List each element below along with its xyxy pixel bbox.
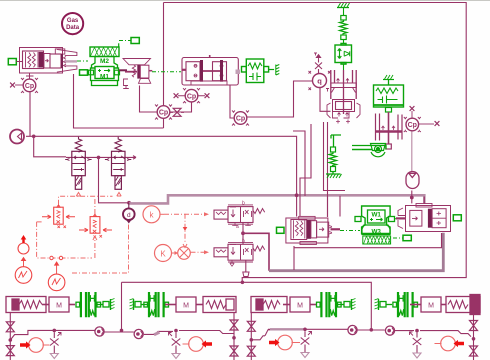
salmon arrow up into valve A <box>76 193 80 197</box>
motor box M R1 <box>290 297 316 312</box>
valve V3 vertical cylinder <box>327 70 360 124</box>
summing dots on bottom dash line <box>50 256 53 259</box>
green dash W1 to MR <box>395 218 404 220</box>
wire: left vertical from top border to Cp C2 <box>163 3 165 107</box>
wire: C4 to accumulator <box>411 132 413 172</box>
wire V3 left drain to ML <box>300 124 311 217</box>
wire: drain to thick line <box>293 131 305 196</box>
force box green with arrows <box>335 43 352 64</box>
wire green to force box <box>343 40 345 44</box>
wire: V1 bottom loop to C2 <box>74 74 164 128</box>
tank: station1 R <box>301 353 309 358</box>
green joint square 2 <box>341 35 346 40</box>
compensator Cp C4 <box>404 117 421 132</box>
wire: valve row line <box>66 156 136 160</box>
valve X right top L <box>230 320 238 330</box>
check valve L2 <box>134 329 143 338</box>
green wall + port R2 <box>375 299 393 311</box>
clutch green R1 <box>317 292 342 317</box>
node: dot left col R <box>250 338 254 342</box>
x right of C4 <box>435 121 440 126</box>
node: dot thick line x296 <box>295 193 299 197</box>
green wall + port L2 <box>130 299 148 311</box>
green port W3 right <box>403 235 411 241</box>
compensator Cp C2 <box>155 105 172 120</box>
svg-text:Gas: Gas <box>67 18 79 24</box>
wire: thick mechanical line <box>129 195 424 203</box>
servo valve V2 <box>123 59 152 89</box>
wire: dot right to descending loop <box>243 233 269 270</box>
valve B <box>105 137 131 190</box>
pump unit ML <box>286 216 340 244</box>
servo valve V1 <box>20 48 78 77</box>
dash-dot k to V6 pilot <box>164 213 204 215</box>
green port + wall R1 <box>338 299 356 311</box>
wire: long drain line bottom sections <box>122 282 372 329</box>
accumulator vessel <box>406 172 419 189</box>
valve X left bottom R <box>247 346 255 356</box>
pump circle station2 R <box>441 336 456 351</box>
svg-text:M2: M2 <box>100 58 109 65</box>
dash-dot into X from k branch <box>184 214 186 243</box>
flow control bowtie C2-C3 <box>170 108 184 116</box>
pump circle station1 L <box>29 338 44 353</box>
green port + wall L1 <box>97 299 115 311</box>
tank: station2 L <box>172 354 180 359</box>
wire: valve row to thick-line dot <box>99 157 130 202</box>
svg-text:M: M <box>56 303 62 310</box>
svg-text:q: q <box>317 77 322 86</box>
svg-text:a: a <box>236 224 239 230</box>
tank: station2 R <box>413 353 421 358</box>
clutch green L1 <box>76 292 101 317</box>
valve X left top L <box>6 322 14 332</box>
spring box R2 <box>446 295 480 315</box>
wire: right col L <box>233 313 235 360</box>
svg-text:d: d <box>127 212 131 219</box>
node: junction supply <box>32 135 36 139</box>
compensator Cp C3 <box>183 88 200 103</box>
wire: bottom distribution L <box>10 330 94 340</box>
svg-text:M1: M1 <box>100 74 109 81</box>
valve X left bottom L <box>6 346 14 356</box>
hose thick piece R <box>270 328 304 330</box>
green port P2 top <box>131 38 139 44</box>
monitor circle d <box>123 203 135 224</box>
signal circle K <box>155 245 179 262</box>
wire: big outer loop top <box>164 3 467 283</box>
green joint square lower <box>331 167 336 172</box>
control block 1 <box>42 205 75 228</box>
clutch green L2 <box>144 292 169 317</box>
green spring vertical <box>340 20 348 35</box>
wire: branch down from supply to valve row <box>34 136 66 157</box>
node: dot center col R <box>370 328 374 332</box>
dash-dot X to V7 pilot <box>191 251 205 253</box>
node: dot station2 L <box>174 329 178 333</box>
vent arrow above Q1 <box>314 53 321 60</box>
svg-text:b: b <box>242 201 245 207</box>
sig source C circle <box>48 274 65 291</box>
svg-text:W1: W1 <box>371 212 381 219</box>
green dash V1 output to M2 <box>77 60 88 62</box>
cylinder CYL1 <box>182 55 240 85</box>
pressure source circle <box>10 130 24 144</box>
sig source A circle <box>15 267 32 284</box>
valve V6 <box>214 201 265 231</box>
wire V3 down to thick line and ML <box>327 122 329 217</box>
pump station 1 R: needle valve <box>301 331 312 352</box>
wire: V6V7 mid port to right loop <box>242 223 244 245</box>
node: dot between V6 V7 <box>241 231 245 235</box>
wire: Q1 bottom stub <box>320 88 331 112</box>
dash-dot left loop <box>37 222 95 258</box>
wire: C5 to Q1 <box>247 81 312 117</box>
wire ML top right drop <box>339 196 341 217</box>
svg-text:M: M <box>183 303 189 310</box>
dash-dot block1 top to valves <box>59 196 113 204</box>
green pulley assembly <box>352 144 386 157</box>
svg-text:Data: Data <box>66 25 80 31</box>
compensator Cp C5 <box>232 111 249 126</box>
check valve R1 <box>348 325 357 334</box>
multiplier circle X <box>178 247 191 260</box>
valve X right top R <box>470 321 478 331</box>
mass block M2/M1 green <box>90 43 119 85</box>
valve X right bottom R <box>470 346 478 356</box>
check valve R2 <box>385 326 394 335</box>
wire: pump supply line <box>26 136 297 216</box>
valve A <box>65 137 91 190</box>
wire: Cp C1 drain down <box>29 92 31 136</box>
node: dot center col L <box>120 329 124 333</box>
spring box L1 <box>6 297 49 313</box>
wire: V1 to Cp C1 stub <box>29 74 31 80</box>
valve V7 <box>214 239 265 267</box>
red arrow above B <box>21 235 27 243</box>
node: dot right col L <box>232 336 236 340</box>
flow meter Q1 <box>309 71 331 92</box>
motor box M R2 <box>410 297 446 312</box>
green chain below V3: square <box>331 147 336 152</box>
dash-dot block2 top up <box>94 198 96 214</box>
check valve L1 <box>95 327 104 336</box>
spring box L2 <box>203 297 236 313</box>
wire: C2 to bowtie to C3 riser <box>170 102 192 112</box>
svg-text:W3: W3 <box>371 229 381 236</box>
pump station 1 L: needle valve <box>50 332 61 353</box>
pump unit MR <box>396 204 451 232</box>
wire: CYL1 right foot to C5 <box>230 85 234 118</box>
green joint square 1 <box>341 16 346 21</box>
arrow C up to dash line <box>55 262 59 274</box>
arrow between A and B <box>22 258 26 267</box>
wire green: anchor to spring <box>343 8 345 16</box>
tank: V7 drain cup <box>243 272 249 277</box>
wire: bottom distribution R <box>251 336 265 340</box>
joint square below tee <box>386 144 392 149</box>
anchor hatch top <box>337 3 350 8</box>
x mark left of C1 <box>10 83 15 88</box>
svg-text:K: K <box>160 250 166 259</box>
green spring lower <box>329 152 337 167</box>
node: junction valve row <box>97 156 101 160</box>
wire: V3 left down <box>324 122 346 191</box>
motor box M L2 <box>165 297 203 312</box>
salmon arrow up into valve B <box>117 193 121 197</box>
control block 2 <box>79 214 112 238</box>
red arrow into pump L2 <box>202 340 213 347</box>
green dash V2 to CYL1 <box>152 71 181 73</box>
wire: thin inner loop <box>294 233 442 270</box>
spring-damper SD2 green (horizontal) <box>374 75 404 112</box>
mass block W1/W3 green <box>355 206 395 244</box>
green chain below V3: top bar <box>331 135 341 147</box>
mechanical tee frame maroon <box>376 112 403 144</box>
spring box R1 <box>251 297 290 313</box>
wire: V2 bottom to C2 row <box>140 86 158 113</box>
node: dot at accumulator/thick <box>410 196 414 200</box>
wire: V7 drain to tank <box>245 261 247 273</box>
red arrow into pump R2 <box>454 340 465 347</box>
node: dot left col L <box>9 338 13 342</box>
green port P1 <box>8 59 16 65</box>
window top edge <box>0 0 490 2</box>
x marks C3 <box>174 93 179 98</box>
svg-text:b: b <box>242 239 245 245</box>
clutch green R2 <box>393 292 418 317</box>
tank: station1 L <box>50 354 58 359</box>
red arrow into pump L1 <box>20 341 31 348</box>
node: dot drain at 242 <box>241 281 245 285</box>
wire: accumulator to thick line to MR <box>411 191 413 204</box>
wire MR top drops <box>423 197 425 205</box>
pump circle station2 L <box>189 337 204 352</box>
pump station 2 R: needle valve <box>410 332 422 353</box>
svg-text:M: M <box>297 303 303 310</box>
bowtie above Q1 <box>315 60 322 74</box>
rod M1 to V2 <box>119 69 127 71</box>
compensator Cp C1 <box>21 78 38 93</box>
pump station 2 L: needle valve <box>169 332 181 353</box>
small circle B above <box>18 243 29 254</box>
node: dot right col R <box>472 337 476 341</box>
wire: thick bottom mech line <box>269 233 443 271</box>
node: dot station1 L <box>53 329 57 333</box>
x above C4 <box>410 106 415 111</box>
wire: thick line to ML top <box>327 196 329 217</box>
Gas Data circle <box>62 13 83 34</box>
node: dot station1 R <box>303 328 307 332</box>
svg-text:M: M <box>428 303 434 310</box>
wire green force box to V3 <box>343 64 345 70</box>
wire: left col R <box>250 313 252 360</box>
wire: left col L <box>9 313 11 360</box>
valve X left top R <box>247 321 255 331</box>
pump circle station1 R <box>278 335 293 350</box>
green port P3 <box>80 70 88 75</box>
green ground hatch lower <box>326 172 342 179</box>
motor box M L1 <box>49 297 75 312</box>
green port MR right <box>453 215 461 221</box>
wire: right col R <box>473 315 475 360</box>
wire: C3 side line with X marks <box>178 95 205 97</box>
node: dot at thick line start <box>127 201 131 205</box>
green dash ML to W1 <box>340 230 360 232</box>
dash-dot d down and left <box>70 225 129 274</box>
spring-damper SD1 green <box>242 59 280 83</box>
valve X right bottom L <box>230 346 238 356</box>
signal circle k <box>143 206 164 223</box>
red arrow into pump R1 <box>269 339 280 346</box>
green port ML left <box>277 227 285 233</box>
node: dot station2 R <box>415 329 419 333</box>
